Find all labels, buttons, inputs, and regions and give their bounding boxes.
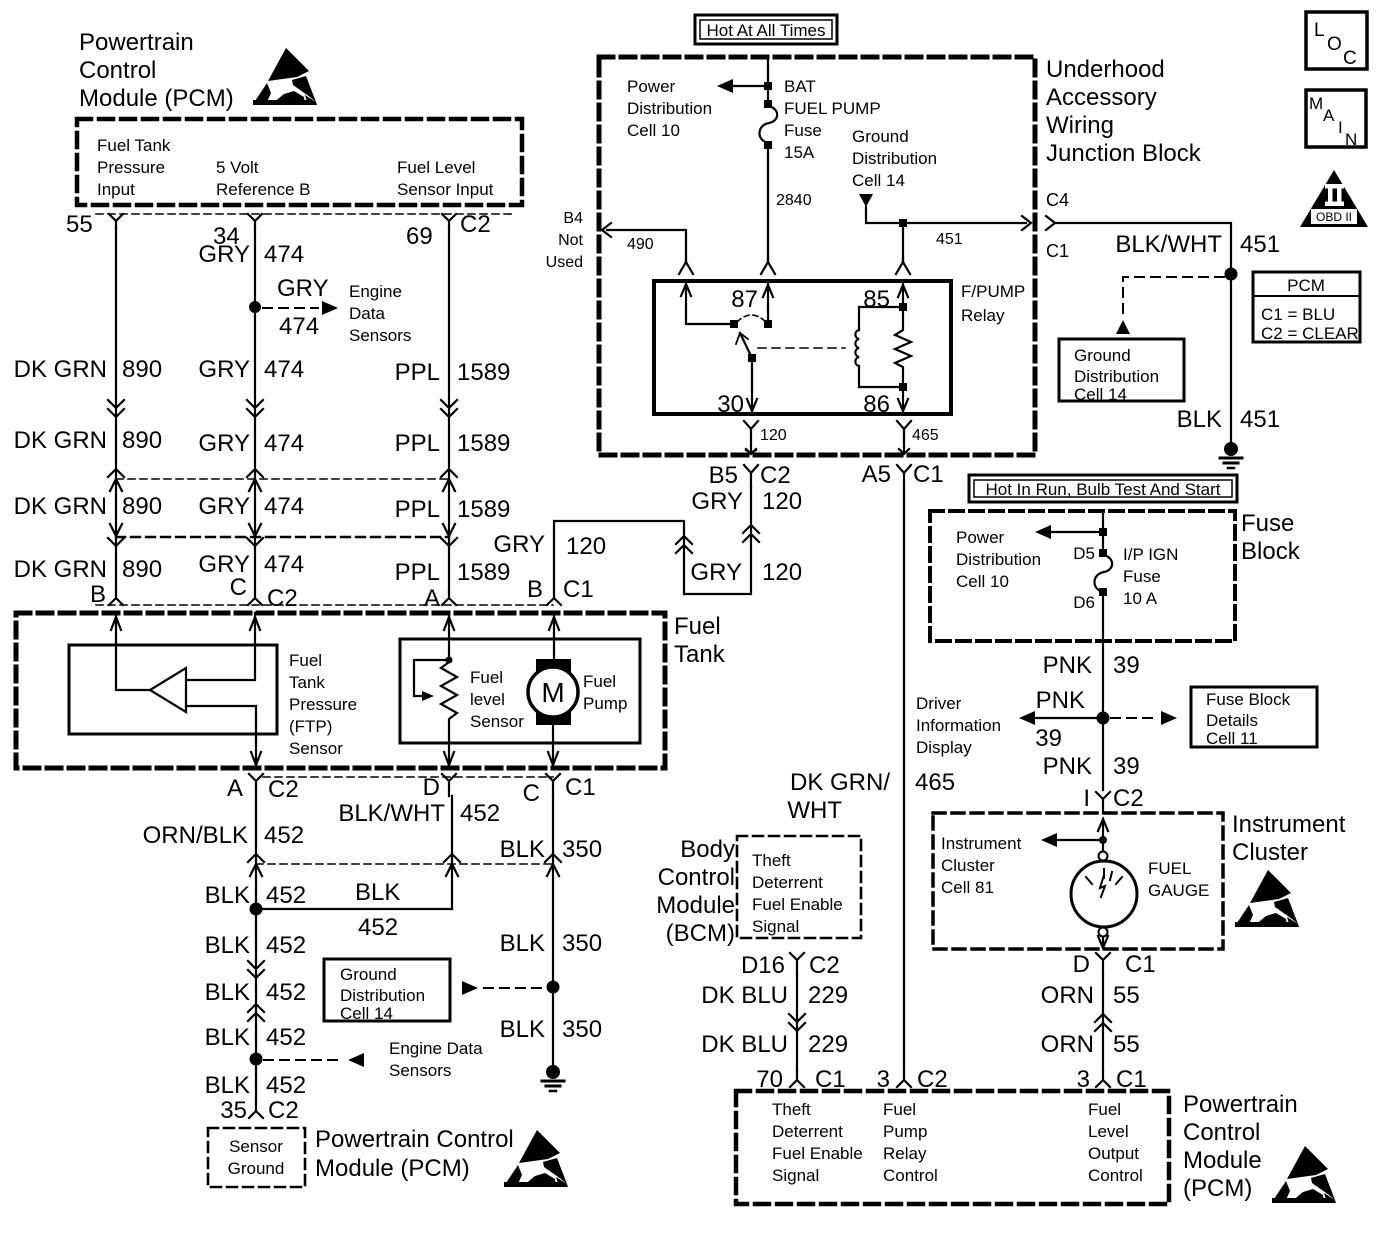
svg-text:Engine: Engine <box>349 282 402 301</box>
svg-text:474: 474 <box>264 551 304 578</box>
Fuse Block Details Cell 11 box <box>1191 687 1317 747</box>
Underhood Accessory Wiring Junction Block title <box>1046 56 1202 167</box>
FTP 5V input stub from pin C <box>186 613 255 680</box>
label GRY 474 row0 <box>198 241 304 268</box>
svg-text:474: 474 <box>264 241 304 268</box>
dashed reference arrow to Engine Data Sensors <box>263 307 318 309</box>
svg-text:452: 452 <box>460 800 500 827</box>
svg-text:Driver: Driver <box>916 694 962 713</box>
Fuel Tank dashed box <box>16 613 665 768</box>
svg-text:BLK: BLK <box>500 836 545 863</box>
svg-text:C2: C2 <box>268 1097 299 1124</box>
ESD symbol bottom-left PCM <box>504 1130 568 1187</box>
svg-text:BLK: BLK <box>205 1024 250 1051</box>
svg-text:Distribution: Distribution <box>956 550 1041 569</box>
inline connector chevrons row A on wire 890 <box>108 400 124 417</box>
inline connector chevrons on 452 at y1010 <box>248 1004 264 1021</box>
wire down to relay pin 85 <box>902 223 904 262</box>
splice arrow to driver information display <box>1035 717 1097 719</box>
GRY 120 return wire up and left <box>554 521 684 594</box>
pin 55 connector fork <box>109 214 123 228</box>
svg-text:Signal: Signal <box>752 917 799 936</box>
relay pin 87 wire with arrow <box>763 281 773 320</box>
FTP op-amp triangle <box>150 668 186 712</box>
F/PUMP relay box <box>654 281 951 414</box>
dashed reference to ground distribution cell 14 <box>1123 277 1224 316</box>
DK GRN/WHT 465 wire down <box>903 487 905 1070</box>
inline connector chevrons at y860 wire 452L <box>248 854 264 876</box>
svg-text:BLK: BLK <box>205 1072 250 1099</box>
svg-text:Cell 81: Cell 81 <box>941 878 994 897</box>
svg-text:I/P IGN: I/P IGN <box>1123 545 1178 564</box>
label BLK 452 row2 <box>205 932 306 959</box>
label BLK/WHT 451 <box>1115 231 1280 258</box>
svg-text:BLK: BLK <box>500 1016 545 1043</box>
svg-text:55: 55 <box>1113 1031 1140 1058</box>
relay resistor zigzag <box>895 311 911 383</box>
svg-text:474: 474 <box>264 356 304 383</box>
svg-text:Cell 10: Cell 10 <box>956 572 1009 591</box>
inline connector row B chevron wire 474 <box>247 469 263 491</box>
LOC box <box>1306 12 1367 69</box>
svg-text:Fuel: Fuel <box>1088 1100 1121 1119</box>
junction dot on 451 <box>1225 268 1238 281</box>
label B5 / C2 <box>709 462 791 489</box>
svg-text:Output: Output <box>1088 1144 1139 1163</box>
svg-text:D6: D6 <box>1073 593 1095 612</box>
svg-text:Pump: Pump <box>583 694 627 713</box>
wire 2840 fuse to relay <box>767 149 769 262</box>
gauge output wire arrow down <box>1098 936 1108 948</box>
svg-text:C4: C4 <box>1046 190 1069 210</box>
svg-text:Details: Details <box>1206 711 1258 730</box>
svg-text:Sensor Input: Sensor Input <box>397 180 494 199</box>
label BLK 350 row2 <box>500 930 602 957</box>
svg-text:C2: C2 <box>809 952 840 979</box>
arrow to power distribution (fuse block) <box>1051 531 1099 533</box>
svg-text:Relay: Relay <box>961 306 1005 325</box>
svg-text:GRY: GRY <box>198 493 250 520</box>
svg-text:39: 39 <box>1113 652 1140 679</box>
svg-text:55: 55 <box>1113 982 1140 1009</box>
wire 490 (not used) <box>607 230 686 262</box>
svg-text:Powertrain: Powertrain <box>79 29 194 56</box>
BCM title <box>656 836 735 947</box>
wire ORN/BLK 452 <box>255 796 257 1104</box>
svg-text:Engine Data: Engine Data <box>389 1039 483 1058</box>
inline connector chevrons at y860 wire 350 <box>545 854 561 876</box>
fuel level sensor resistor zigzag <box>441 662 457 768</box>
wire 451 from ground distribution <box>866 207 1026 223</box>
svg-text:Junction Block: Junction Block <box>1046 140 1202 167</box>
svg-text:Distribution: Distribution <box>627 99 712 118</box>
fuel pump wire bottom <box>552 717 554 768</box>
svg-text:I: I <box>1338 118 1343 137</box>
svg-text:BLK: BLK <box>205 979 250 1006</box>
inline connector row C arrow+chevron wire 1589 <box>441 524 457 546</box>
svg-text:Tank: Tank <box>289 673 325 692</box>
gauge ticks <box>1086 869 1122 884</box>
wire arrow into tank (C) <box>250 617 260 630</box>
Fuse Block dashed box <box>930 511 1235 641</box>
svg-text:WHT: WHT <box>787 797 842 824</box>
coil top/bottom connections <box>859 307 903 387</box>
svg-text:PPL: PPL <box>395 359 440 386</box>
gauge needle <box>1100 875 1105 897</box>
svg-text:PNK: PNK <box>1043 753 1092 780</box>
pin 86 outlet fork and arrow <box>897 421 911 454</box>
svg-text:GRY: GRY <box>198 241 250 268</box>
MAIN box <box>1306 90 1366 147</box>
open arrow at boundary <box>1022 216 1031 230</box>
relay inlet forks <box>679 258 693 274</box>
junction dot BLK splice <box>250 903 263 916</box>
svg-text:DK GRN: DK GRN <box>14 556 107 583</box>
relay contact squares <box>730 320 738 328</box>
svg-text:Reference B: Reference B <box>216 180 311 199</box>
svg-text:Module: Module <box>656 892 735 919</box>
label PNK 39 (upper) <box>1043 652 1140 679</box>
relay 87 feed arrow (490 side) <box>681 283 730 324</box>
svg-text:C2: C2 <box>760 462 791 489</box>
svg-text:Sensors: Sensors <box>349 326 411 345</box>
label PNK 39 (lower) <box>1043 753 1140 780</box>
arrow to power distribution <box>733 85 764 87</box>
svg-text:Control: Control <box>1183 1119 1260 1146</box>
svg-text:C1: C1 <box>1046 241 1069 261</box>
label BLK 350 row1 <box>500 836 602 863</box>
svg-text:Module (PCM): Module (PCM) <box>79 85 234 112</box>
svg-text:Cell 11: Cell 11 <box>1206 729 1258 748</box>
FTP sensor box <box>69 645 277 734</box>
svg-text:Ground: Ground <box>228 1159 285 1178</box>
svg-text:Body: Body <box>680 836 735 863</box>
svg-text:35: 35 <box>220 1097 247 1124</box>
svg-text:Data: Data <box>349 304 385 323</box>
svg-text:A: A <box>424 585 440 612</box>
label Theft Deterrent Fuel Enable Signal (PCM) <box>772 1100 863 1185</box>
label Fuel Tank Pressure (FTP) Sensor <box>289 651 357 758</box>
pin 69 connector fork <box>442 214 456 228</box>
svg-text:5 Volt: 5 Volt <box>216 158 259 177</box>
junction square BAT <box>764 82 772 90</box>
svg-text:350: 350 <box>562 930 602 957</box>
svg-text:A5: A5 <box>862 461 891 488</box>
svg-text:229: 229 <box>808 1031 848 1058</box>
svg-text:39: 39 <box>1113 753 1140 780</box>
connector dashed line at y864 <box>256 863 553 865</box>
BLK/WHT 451 wire <box>1055 223 1231 445</box>
svg-text:PNK: PNK <box>1036 687 1085 714</box>
ESD symbol top-left PCM <box>253 48 317 105</box>
wire arrow into tank (A) <box>444 617 454 630</box>
label GRY 474 at junction <box>277 275 329 340</box>
svg-text:Level: Level <box>1088 1122 1129 1141</box>
ESD symbol bottom-right PCM <box>1272 1146 1336 1203</box>
fuel pump motor circle <box>528 667 578 717</box>
label BLK 452 row5 <box>205 1072 306 1099</box>
dashed reference to fuse block details <box>1111 717 1154 719</box>
svg-text:PPL: PPL <box>395 559 440 586</box>
label Fuel level Sensor <box>470 668 524 731</box>
svg-text:452: 452 <box>266 979 306 1006</box>
svg-text:Pressure: Pressure <box>289 695 357 714</box>
Hot In Run double box <box>969 475 1237 502</box>
svg-text:69: 69 <box>406 223 433 250</box>
svg-text:Accessory: Accessory <box>1046 84 1157 111</box>
svg-text:890: 890 <box>122 493 162 520</box>
label Fuel Level Sensor Input <box>397 158 494 199</box>
bottom forks A / D / C <box>249 774 263 796</box>
svg-text:1589: 1589 <box>457 496 510 523</box>
arrows out of tank bottom <box>251 752 261 765</box>
svg-text:Control: Control <box>883 1166 938 1185</box>
svg-text:Instrument: Instrument <box>941 834 1022 853</box>
label GRY 120 (left pair) <box>493 531 606 560</box>
svg-text:Sensors: Sensors <box>389 1061 451 1080</box>
PCM dashed box (top) <box>77 119 522 205</box>
svg-text:Cell 10: Cell 10 <box>627 121 680 140</box>
label 5 Volt Reference B <box>216 158 311 199</box>
svg-text:Distribution: Distribution <box>340 986 425 1005</box>
svg-text:Powertrain Control: Powertrain Control <box>315 1126 514 1153</box>
svg-text:Fuse: Fuse <box>784 121 822 140</box>
svg-text:Sensor: Sensor <box>470 712 524 731</box>
svg-text:1589: 1589 <box>457 359 510 386</box>
svg-text:DK GRN/: DK GRN/ <box>790 769 890 796</box>
wire PPL 1589 (pin 69) <box>448 228 450 592</box>
label DK GRN/ WHT 465 <box>787 769 955 824</box>
Theft Deterrent Fuel Enable Signal dashed box (BCM) <box>737 836 861 938</box>
label I/P IGN Fuse 10 A <box>1123 545 1178 608</box>
svg-text:Control: Control <box>658 864 735 891</box>
svg-text:BLK: BLK <box>500 930 545 957</box>
junction dot gauge <box>1099 836 1107 844</box>
PCM connector legend box <box>1253 272 1360 342</box>
middle dashed box (underhood junction block area) <box>599 57 1035 455</box>
svg-text:F/PUMP: F/PUMP <box>961 282 1025 301</box>
svg-text:(FTP): (FTP) <box>289 717 332 736</box>
svg-text:1589: 1589 <box>457 430 510 457</box>
Hot At All Times double box <box>695 15 837 44</box>
svg-text:Sensor: Sensor <box>289 739 343 758</box>
Instrument Cluster dashed box <box>933 813 1223 949</box>
svg-text:Relay: Relay <box>883 1144 927 1163</box>
svg-text:L: L <box>1314 20 1325 41</box>
svg-text:DK GRN: DK GRN <box>14 493 107 520</box>
B4 Not Used label <box>546 210 584 271</box>
label FUEL PUMP Fuse 15A <box>784 99 881 162</box>
ESD symbol instrument cluster <box>1235 870 1299 927</box>
text Ground Distribution Cell 14 (middle) <box>852 127 937 190</box>
svg-text:C2: C2 <box>1113 785 1144 812</box>
pin 30 outlet fork and arrow <box>744 421 758 453</box>
svg-text:B5: B5 <box>709 462 738 489</box>
label BLK 452 row3 <box>205 979 306 1006</box>
FTP output stub to pin A <box>186 706 256 768</box>
svg-text:Block: Block <box>1241 538 1301 565</box>
dashed reference from ground distribution box to BLK 350 <box>462 981 478 995</box>
svg-text:BLK/WHT: BLK/WHT <box>1115 231 1222 258</box>
svg-text:M: M <box>1309 94 1323 113</box>
svg-text:451: 451 <box>1240 231 1280 258</box>
GRY 120 wire from B5 down <box>684 487 751 594</box>
svg-text:Fuse: Fuse <box>1123 567 1161 586</box>
PCM title bottom right <box>1183 1091 1298 1202</box>
svg-text:Pressure: Pressure <box>97 158 165 177</box>
svg-text:Fuse: Fuse <box>1241 510 1294 537</box>
svg-text:350: 350 <box>562 1016 602 1043</box>
relay coil <box>855 307 859 387</box>
svg-text:BLK: BLK <box>205 932 250 959</box>
svg-text:55: 55 <box>66 211 93 238</box>
svg-text:B: B <box>90 581 106 608</box>
svg-text:Distribution: Distribution <box>852 149 937 168</box>
wire BLK/WHT 452 (pin D) <box>451 796 453 909</box>
FUEL GAUGE circle <box>1071 861 1137 927</box>
label BLK 452 row4 <box>205 1024 306 1051</box>
label BLK 452 on splice wire <box>355 879 400 941</box>
svg-text:Fuel: Fuel <box>883 1100 916 1119</box>
chevrons on DK BLU wire <box>789 1014 805 1031</box>
svg-text:BLK: BLK <box>355 879 400 906</box>
chevrons on return wire <box>676 536 692 553</box>
svg-text:Fuel: Fuel <box>583 672 616 691</box>
svg-text:Fuse Block: Fuse Block <box>1206 690 1291 709</box>
svg-text:451: 451 <box>1240 406 1280 433</box>
svg-text:465: 465 <box>912 427 939 444</box>
inline connector row B chevron wire 1589 <box>441 469 457 491</box>
gauge top terminal <box>1099 852 1108 861</box>
svg-text:2840: 2840 <box>776 192 812 209</box>
A5 C1 connector fork <box>897 465 911 487</box>
label ORN/BLK 452 <box>143 822 304 849</box>
label DK BLU 229 (lower) <box>701 1031 848 1058</box>
svg-text:C: C <box>1343 48 1357 69</box>
svg-text:890: 890 <box>122 556 162 583</box>
fuel tank bottom thin dashed connector line <box>263 776 553 778</box>
svg-text:O: O <box>1327 34 1342 55</box>
svg-text:BAT: BAT <box>784 77 816 96</box>
label BLK/WHT 452 <box>338 800 500 827</box>
svg-text:FUEL PUMP: FUEL PUMP <box>784 99 881 118</box>
svg-text:Fuel Level: Fuel Level <box>397 158 475 177</box>
relay switch blade <box>740 333 752 358</box>
svg-text:Power: Power <box>956 528 1005 547</box>
fuel level sensor wiper <box>414 660 449 696</box>
svg-text:N: N <box>1345 130 1357 149</box>
svg-text:85: 85 <box>863 286 890 313</box>
label BLK 451 <box>1177 406 1280 433</box>
svg-text:C2: C2 <box>268 776 299 803</box>
svg-text:Ground: Ground <box>340 965 397 984</box>
svg-text:FUEL: FUEL <box>1148 859 1191 878</box>
pin 35 fork into sensor ground <box>249 1104 263 1118</box>
gauge bottom terminal <box>1099 928 1108 937</box>
svg-text:465: 465 <box>915 769 955 796</box>
svg-text:Hot In Run, Bulb Test And Star: Hot In Run, Bulb Test And Start <box>986 480 1221 499</box>
text Power Distribution Cell 10 <box>627 77 712 140</box>
svg-text:A: A <box>1323 106 1335 125</box>
svg-text:BLK: BLK <box>1177 406 1222 433</box>
svg-text:GRY: GRY <box>198 430 250 457</box>
connector row C dashed line <box>116 536 449 538</box>
svg-text:Instrument: Instrument <box>1232 811 1346 838</box>
label Fuel Level Output Control <box>1088 1100 1143 1185</box>
Ground Distribution Cell 14 box (right) <box>1059 339 1184 401</box>
svg-text:M: M <box>541 677 564 708</box>
relay pin 85 wire with arrow <box>898 281 908 303</box>
svg-text:Ground: Ground <box>852 127 909 146</box>
PCM dashed box (bottom) <box>736 1091 1169 1204</box>
svg-text:350: 350 <box>562 836 602 863</box>
ground distribution feed triangle <box>859 194 873 207</box>
svg-text:Signal: Signal <box>772 1166 819 1185</box>
svg-text:D: D <box>423 774 440 801</box>
Instrument Cluster title <box>1232 811 1346 866</box>
junction square on 451 <box>899 219 907 227</box>
svg-text:120: 120 <box>762 559 802 586</box>
svg-text:452: 452 <box>264 822 304 849</box>
junction dot at sensor top <box>446 657 453 664</box>
inline connector row C arrow+chevron wire 890 <box>108 524 124 546</box>
svg-text:C1: C1 <box>1125 951 1156 978</box>
inline connector chevrons row A on wire 474 <box>247 400 263 417</box>
svg-text:DK GRN: DK GRN <box>14 356 107 383</box>
inline connector chevrons on 452 at y965 <box>248 961 264 978</box>
svg-text:Pump: Pump <box>883 1122 927 1141</box>
label FUEL GAUGE <box>1148 859 1209 900</box>
fuel tank top boundary forks <box>109 592 123 605</box>
svg-text:D5: D5 <box>1073 544 1095 563</box>
svg-text:C: C <box>523 780 540 807</box>
svg-text:Used: Used <box>546 254 583 271</box>
svg-text:Deterrent: Deterrent <box>772 1122 843 1141</box>
svg-text:Power: Power <box>627 77 676 96</box>
svg-text:Theft: Theft <box>752 851 791 870</box>
battery feed wire <box>767 57 769 104</box>
svg-text:GRY: GRY <box>198 356 250 383</box>
label BLK 452 row1 <box>205 882 306 909</box>
svg-text:451: 451 <box>936 231 963 248</box>
svg-text:Fuel Enable: Fuel Enable <box>752 895 843 914</box>
wire DK GRN 890 (pin 55 to FTP sensor B) <box>115 228 117 592</box>
svg-text:level: level <box>470 690 505 709</box>
text Instrument Cluster Cell 81 <box>941 834 1022 897</box>
svg-text:(BCM): (BCM) <box>666 920 735 947</box>
text Engine Data Sensors <box>389 1039 483 1080</box>
connector row B dashed line <box>116 478 449 480</box>
svg-text:BLK/WHT: BLK/WHT <box>338 800 445 827</box>
svg-text:A: A <box>227 775 243 802</box>
svg-text:ORN: ORN <box>1041 982 1094 1009</box>
svg-text:474: 474 <box>279 313 319 340</box>
svg-text:Distribution: Distribution <box>1074 367 1159 386</box>
svg-text:452: 452 <box>266 882 306 909</box>
svg-text:Fuel Enable: Fuel Enable <box>772 1144 863 1163</box>
svg-text:DK BLU: DK BLU <box>701 982 788 1009</box>
wire arrow into tank (B) <box>111 617 121 630</box>
wire arrow into tank (fuel pump B) <box>549 617 559 630</box>
svg-text:ORN: ORN <box>1041 1031 1094 1058</box>
wire GRY 474 (pin 34) <box>254 228 256 592</box>
svg-text:D16: D16 <box>741 952 785 979</box>
arrow to instrument cluster cell 81 <box>1057 839 1100 841</box>
PCM title text <box>79 29 234 112</box>
svg-text:B4: B4 <box>563 210 583 227</box>
wire labels row1 <box>14 356 511 386</box>
svg-text:452: 452 <box>266 1072 306 1099</box>
